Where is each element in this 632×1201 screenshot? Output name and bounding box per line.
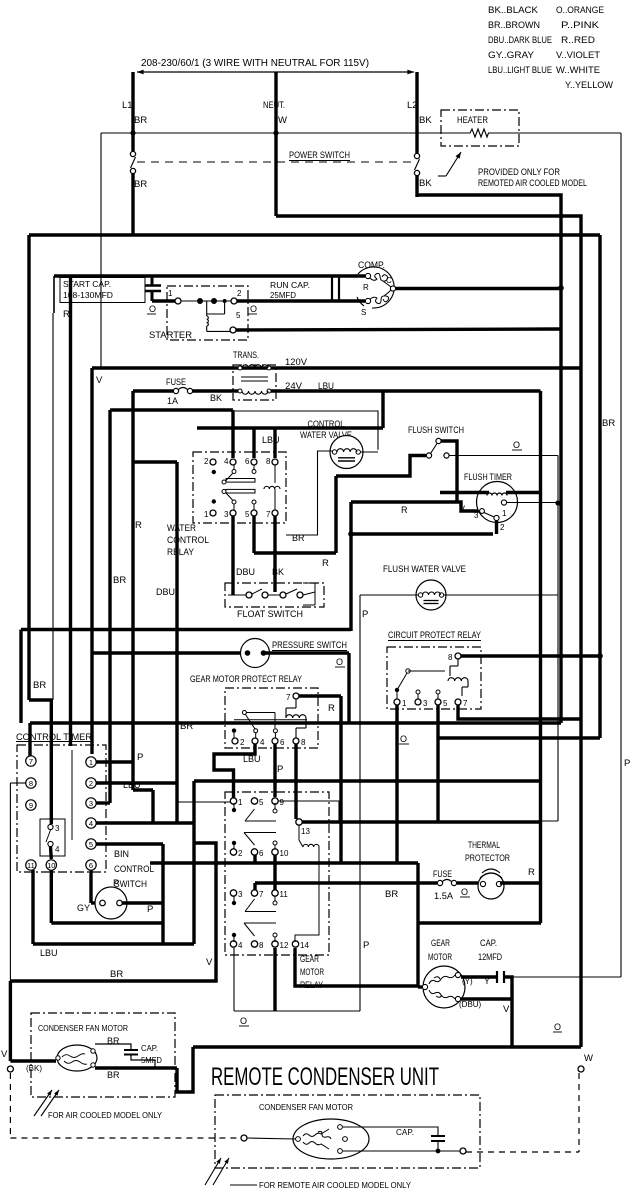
wire CPR7 to W rail <box>458 705 581 719</box>
wire V return staircase <box>177 1047 193 1092</box>
svg-text:V: V <box>96 375 103 386</box>
svg-text:MOTOR: MOTOR <box>428 952 452 962</box>
svg-text:PROVIDED ONLY FOR: PROVIDED ONLY FOR <box>478 167 560 177</box>
terminal starter 5 <box>230 327 236 333</box>
wire V bus y1047 <box>193 1045 581 1048</box>
svg-text:GEAR: GEAR <box>431 938 450 948</box>
wire cam to timer10 <box>49 847 53 859</box>
wire remote lower lead <box>343 1150 460 1152</box>
terminal timer 10 <box>46 860 56 870</box>
svg-text:LBU: LBU <box>40 948 58 958</box>
wire remote cap bottom lead <box>437 1141 439 1151</box>
junction x351 y534 <box>348 531 354 537</box>
svg-text:4: 4 <box>238 941 243 950</box>
wire y738 link <box>438 736 600 739</box>
circuit protect relay box <box>387 647 481 709</box>
wire motor to cap <box>461 975 497 978</box>
wire valve feed thin <box>235 411 378 450</box>
svg-text:FLUSH SWITCH: FLUSH SWITCH <box>408 425 464 436</box>
svg-text:SWITCH: SWITCH <box>114 879 147 889</box>
svg-text:W..WHITE: W..WHITE <box>556 65 600 76</box>
wire flush switch feed <box>336 456 426 477</box>
svg-text:3: 3 <box>474 511 479 520</box>
wire dashed W to remote <box>466 1151 579 1153</box>
power switch L1 pole <box>130 151 135 156</box>
wire thin drop x101 <box>100 133 102 368</box>
wire WCR5 down <box>252 516 255 553</box>
wire y534 flush timer 2 <box>351 532 493 535</box>
wire GMR7 stub <box>253 883 256 890</box>
GMR dots and stubs <box>232 808 236 812</box>
wire GMPR4 to GMR1 <box>214 744 255 798</box>
junction NEUT tap <box>273 130 278 135</box>
junction thin x558 y503 <box>555 500 560 505</box>
terminal WCR 6 <box>251 459 257 465</box>
contact dot WCR lower <box>212 499 216 503</box>
terminal GMR 14 <box>292 941 298 947</box>
start cap label box <box>60 278 145 303</box>
svg-text:RELAY: RELAY <box>300 980 323 990</box>
svg-text:4: 4 <box>224 457 229 466</box>
wire LBU y428 <box>197 426 383 429</box>
terminal timer 1 <box>86 757 96 767</box>
svg-text:NEUT.: NEUT. <box>263 100 285 111</box>
wire flush timer 1 out <box>507 502 558 504</box>
CPR switch arm <box>397 673 407 690</box>
svg-text:BR: BR <box>292 533 305 543</box>
terminal starter 1 <box>175 298 181 304</box>
terminal timer 4 <box>86 818 96 828</box>
wire GMPR8 to GMR13 <box>294 744 297 819</box>
svg-text:L2: L2 <box>407 100 418 111</box>
svg-text:GY: GY <box>77 903 90 913</box>
svg-text:O: O <box>250 304 257 314</box>
svg-text:1: 1 <box>168 289 173 298</box>
wire GMR13 to R rail <box>302 820 541 823</box>
terminal WCR 4 <box>230 459 236 465</box>
terminal WCR 8 <box>272 459 278 465</box>
svg-text:8: 8 <box>266 457 271 466</box>
svg-text:120V: 120V <box>285 357 307 367</box>
terminal W open <box>578 1066 584 1072</box>
svg-text:BR: BR <box>110 969 123 980</box>
terminal GMR 7 <box>251 890 257 896</box>
svg-text:BK..BLACK: BK..BLACK <box>488 5 539 16</box>
terminal CPR 7 <box>455 699 461 705</box>
wire riser x336 <box>334 476 337 553</box>
terminal WCR 7 <box>272 510 278 516</box>
svg-text:CAP.: CAP. <box>480 938 497 948</box>
svg-text:R: R <box>363 283 369 292</box>
wire y1011 thin <box>234 1010 360 1012</box>
transformer core <box>241 376 268 378</box>
wire fuse riser x133 down <box>131 391 134 790</box>
wire y553 <box>254 551 336 554</box>
wire starter bus y301 left <box>152 299 178 302</box>
wire y923 link <box>418 921 541 924</box>
svg-text:3: 3 <box>238 890 243 899</box>
svg-text:FLUSH WATER VALVE: FLUSH WATER VALVE <box>383 564 466 575</box>
svg-text:R: R <box>135 520 142 531</box>
flush timer motor <box>477 482 518 523</box>
svg-text:RELAY: RELAY <box>167 547 194 557</box>
svg-text:W: W <box>278 115 287 126</box>
svg-text:7: 7 <box>29 757 33 766</box>
flush timer contacts <box>480 509 485 514</box>
wire flush valve right <box>444 594 558 596</box>
wire LBU bus y790 short <box>133 788 153 791</box>
svg-text:5: 5 <box>259 798 264 807</box>
GMR switch arms <box>245 809 255 821</box>
svg-text:11: 11 <box>280 890 289 899</box>
svg-text:DBU..DARK BLUE: DBU..DARK BLUE <box>488 35 552 46</box>
wire WCR6 feed <box>252 428 255 458</box>
svg-text:O: O <box>149 304 156 314</box>
svg-text:O: O <box>513 440 520 450</box>
terminal timer 3 <box>86 798 96 808</box>
svg-text:FLUSH TIMER: FLUSH TIMER <box>464 472 512 483</box>
GMPR switch arm <box>242 711 246 715</box>
gear motor windings <box>429 975 455 984</box>
junction CPR8 BR rail <box>597 653 603 659</box>
wire timer1 link <box>96 760 133 763</box>
remote condenser unit box <box>215 1095 480 1168</box>
wire V to pressure switch <box>92 651 246 654</box>
terminal CPR 8 <box>455 653 461 659</box>
wire flush NC thin y455 <box>449 455 558 457</box>
svg-text:BR: BR <box>134 115 147 126</box>
wire riser x153 <box>151 790 154 823</box>
GMR coil <box>303 844 319 847</box>
svg-text:6: 6 <box>280 738 285 747</box>
wire y502 to flush timer 3 <box>351 502 479 511</box>
svg-text:BR: BR <box>33 680 46 691</box>
wire R rail x541 <box>539 391 542 923</box>
terminal timer 7 <box>26 756 36 766</box>
svg-text:MOTOR: MOTOR <box>300 967 324 977</box>
svg-text:BK: BK <box>272 567 284 577</box>
solenoid control water valve <box>330 436 363 469</box>
wire CPR1 down <box>395 705 398 863</box>
wire fuse line right BK <box>192 389 238 392</box>
svg-text:208-230/60/1 (3 WIRE WITH NEUT: 208-230/60/1 (3 WIRE WITH NEUTRAL FOR 11… <box>141 58 369 69</box>
wire CPR5 down <box>436 705 439 822</box>
svg-text:CAP.: CAP. <box>396 1127 414 1137</box>
wire WCR8 feed <box>273 428 276 458</box>
terminal comp R <box>365 273 370 278</box>
wire GY bus y923 <box>51 921 163 924</box>
wire L1 below switch <box>131 173 134 236</box>
svg-text:GEAR MOTOR PROTECT RELAY: GEAR MOTOR PROTECT RELAY <box>190 674 303 685</box>
svg-text:10: 10 <box>47 861 55 870</box>
svg-text:R: R <box>328 703 335 714</box>
solenoid flush water valve <box>416 580 446 610</box>
wire R stub drop x54 <box>53 276 55 313</box>
svg-text:6: 6 <box>245 457 250 466</box>
wire dashed V to remote <box>10 1137 244 1139</box>
wire valve left lead to WCR <box>286 451 333 535</box>
svg-text:8: 8 <box>301 738 306 747</box>
svg-text:O: O <box>554 1022 561 1032</box>
arrowhead left feed <box>137 70 144 75</box>
wire WCR3 to float <box>231 516 234 595</box>
wire CPR8 to BR rail <box>461 654 600 657</box>
wire BR left rail x29 <box>27 235 30 700</box>
wire BR fuse line <box>255 881 437 884</box>
svg-text:8: 8 <box>448 653 453 662</box>
arrowhead right feed <box>407 70 414 75</box>
svg-text:BR: BR <box>113 575 126 586</box>
svg-text:8: 8 <box>259 941 264 950</box>
svg-text:FOR REMOTE AIR COOLED MODEL ON: FOR REMOTE AIR COOLED MODEL ONLY <box>259 1180 411 1190</box>
transformer secondary coil <box>238 389 242 393</box>
wire heater left lead <box>419 132 466 134</box>
wire GMPR6 to GMR9 <box>273 744 276 797</box>
wire TP to R rail <box>500 881 541 884</box>
svg-text:DBU: DBU <box>156 587 175 597</box>
terminal WCR 5 <box>251 510 257 516</box>
svg-text:12: 12 <box>280 941 289 950</box>
svg-text:13: 13 <box>301 827 310 836</box>
wire bin left lead <box>91 901 100 904</box>
wire neutral-tap horizontal thin <box>101 132 421 134</box>
float switch right bracket <box>303 592 315 595</box>
wire thin x558 join <box>541 820 558 822</box>
wire motor DBU lead <box>461 997 512 1000</box>
svg-text:1: 1 <box>89 758 93 767</box>
wire GMPR7 drop x341 <box>339 696 342 863</box>
wire thin drop x10 <box>9 783 11 981</box>
svg-text:P: P <box>277 764 283 775</box>
wire R bus y492 left <box>440 491 489 494</box>
capacitor 5MFD fan <box>124 1049 138 1051</box>
wire cap to V bus <box>504 977 512 1047</box>
arrow heater note <box>446 152 461 176</box>
svg-text:BR..BROWN: BR..BROWN <box>488 20 540 31</box>
power switch L2 pole <box>414 153 419 158</box>
starter relay coil <box>206 301 208 316</box>
remote condenser fan motor <box>293 1119 369 1159</box>
svg-text:LBU: LBU <box>262 435 280 445</box>
svg-text:CONDENSER FAN MOTOR: CONDENSER FAN MOTOR <box>259 1102 353 1112</box>
terminal timer 5 <box>86 839 96 849</box>
svg-text:2: 2 <box>204 457 209 466</box>
wire R riser x71 <box>69 276 72 746</box>
svg-text:R: R <box>322 558 329 569</box>
svg-text:BR: BR <box>385 889 398 900</box>
wire fan cap bottom <box>131 1055 155 1068</box>
svg-text:9: 9 <box>29 801 33 810</box>
control timer box <box>17 745 106 872</box>
wire dashed W drop <box>578 1073 580 1152</box>
wire bus to timer7 <box>28 723 31 756</box>
wire thin R drop x53 <box>52 313 54 700</box>
wire LBU bus y944 <box>33 942 194 945</box>
wire P drop x360 <box>359 595 361 1011</box>
svg-text:V: V <box>459 504 465 514</box>
svg-text:BR: BR <box>134 179 147 190</box>
wire fuse to TP <box>457 881 478 884</box>
svg-text:BR: BR <box>107 1070 120 1080</box>
terminal timer 6 <box>86 860 96 870</box>
svg-text:FUSE: FUSE <box>166 377 186 387</box>
wire GMR12 down <box>273 948 276 1011</box>
terminal GMPR 4 <box>252 738 258 744</box>
wire L2 drop <box>415 72 418 153</box>
wire V to fan motor <box>10 1059 56 1062</box>
svg-text:(BK): (BK) <box>26 1064 42 1073</box>
terminal WCR 3 <box>230 510 236 516</box>
svg-text:REMOTED AIR COOLED MODEL: REMOTED AIR COOLED MODEL <box>478 178 587 188</box>
svg-text:1A: 1A <box>167 396 178 406</box>
svg-text:P: P <box>363 940 369 951</box>
svg-text:O: O <box>240 1016 247 1026</box>
svg-text:14: 14 <box>300 941 309 950</box>
svg-text:5: 5 <box>89 840 93 849</box>
wire remote motor left lead <box>247 1138 296 1139</box>
svg-text:5MFD: 5MFD <box>141 1055 162 1065</box>
wire timer11 down <box>31 870 34 944</box>
svg-text:O: O <box>461 887 468 897</box>
pressure switch <box>241 639 270 668</box>
arrow air cooled note <box>34 1090 52 1116</box>
svg-text:11: 11 <box>27 861 35 870</box>
wire BR right rail x600 <box>598 235 601 738</box>
svg-text:5: 5 <box>236 311 241 320</box>
water control relay box <box>193 452 286 523</box>
svg-text:Y..YELLOW: Y..YELLOW <box>565 80 613 91</box>
wire staircase x216 to BR bus <box>194 843 216 981</box>
svg-text:6: 6 <box>259 849 264 858</box>
capacitor 12MFD <box>496 971 498 983</box>
gear motor protect relay box <box>225 688 318 748</box>
heater box <box>441 110 519 146</box>
terminal timer 9 <box>26 800 36 810</box>
wire V drop x92 <box>90 368 93 754</box>
junction starter c <box>223 299 227 303</box>
terminal CPR 1 <box>394 699 400 705</box>
terminal starter 2 <box>231 298 237 304</box>
wire GMR14 to gear motor <box>295 948 418 986</box>
svg-text:POWER SWITCH: POWER SWITCH <box>289 150 350 161</box>
terminal GMPR 6 <box>272 738 278 744</box>
transformer primary coil <box>238 366 242 370</box>
svg-text:8: 8 <box>29 779 33 788</box>
CPR coil <box>448 678 468 681</box>
terminal GMR 3 <box>230 890 236 896</box>
timer 3 stub <box>96 801 110 804</box>
terminal GMR 5 <box>251 798 257 804</box>
wire 120V line y368 <box>92 366 582 369</box>
wire y410 link <box>110 408 233 411</box>
svg-text:S: S <box>361 308 366 317</box>
svg-text:2: 2 <box>240 738 245 747</box>
wire left drop x21 <box>19 630 22 724</box>
svg-text:O: O <box>336 657 343 667</box>
wire flush switch out <box>441 441 457 502</box>
terminal remote left <box>241 1135 247 1141</box>
svg-text:STARTER: STARTER <box>149 330 192 341</box>
svg-text:9: 9 <box>280 798 285 807</box>
wire remote cap top lead <box>343 1127 438 1136</box>
svg-text:DBU: DBU <box>236 567 255 577</box>
svg-text:1.5A: 1.5A <box>434 891 453 901</box>
contact dot WCR upper <box>212 470 216 474</box>
wire timer5 row y844 <box>96 842 163 845</box>
wire flush timer 2 down <box>495 521 498 534</box>
wire starter5 to BK rail y329 <box>236 329 561 330</box>
svg-text:10: 10 <box>280 849 289 858</box>
svg-text:7: 7 <box>266 510 271 519</box>
timer cam switch box <box>40 819 65 856</box>
svg-text:7: 7 <box>259 890 264 899</box>
wire W neutral rail right <box>276 216 581 1047</box>
wire link y462 <box>133 460 177 463</box>
wire y629 bus <box>21 628 351 631</box>
terminal timer 8 <box>26 778 36 788</box>
svg-text:HEATER: HEATER <box>457 115 488 126</box>
gear motor relay box <box>225 792 329 955</box>
thermal protector <box>478 873 504 899</box>
svg-text:P: P <box>137 752 143 763</box>
wire thin heater return y977 <box>512 976 621 978</box>
starter relay box <box>167 286 248 340</box>
svg-text:1: 1 <box>238 798 243 807</box>
wire fan to cap top <box>95 1044 131 1050</box>
svg-text:2: 2 <box>237 289 242 298</box>
svg-text:PRESSURE SWITCH: PRESSURE SWITCH <box>272 640 347 650</box>
wire V drop bottom <box>9 981 12 1061</box>
svg-text:1: 1 <box>402 699 407 708</box>
svg-text:4: 4 <box>89 819 93 828</box>
wire GMPR7 out <box>299 694 341 697</box>
wire timer8 thin out <box>10 782 26 784</box>
svg-text:BK: BK <box>419 115 432 126</box>
svg-text:CONDENSER FAN MOTOR: CONDENSER FAN MOTOR <box>38 1023 128 1033</box>
svg-text:LBU..LIGHT BLUE: LBU..LIGHT BLUE <box>488 65 552 76</box>
float switch contacts <box>228 594 246 596</box>
wire timer6 to bin switch <box>89 870 92 903</box>
junction starter b <box>211 298 217 304</box>
svg-text:4: 4 <box>55 845 60 854</box>
wire supply feed line <box>137 71 414 73</box>
wire BR bus y981 <box>10 979 217 982</box>
terminal GMPR 8 <box>293 738 299 744</box>
contact dot GMPR 2 <box>232 728 236 732</box>
terminal WCR 2 <box>210 459 216 465</box>
svg-text:FUSE: FUSE <box>433 869 452 879</box>
wire starter internal y301 <box>181 300 231 302</box>
wire LBU riser x383 <box>381 391 384 428</box>
wire timer10 down <box>50 870 53 923</box>
terminal timer 2 <box>86 778 96 788</box>
contact dot CPR 1 <box>395 688 399 692</box>
svg-text:L1: L1 <box>122 100 133 111</box>
svg-text:CONTROL: CONTROL <box>114 864 154 874</box>
wire dashed V drop <box>9 1073 11 1138</box>
wire riser x110 to timer3 <box>108 410 111 803</box>
wire bin right lead <box>122 901 163 904</box>
svg-text:TRANS.: TRANS. <box>233 350 259 360</box>
condenser fan motor box <box>31 1013 175 1097</box>
svg-text:P: P <box>624 758 630 769</box>
svg-text:V..VIOLET: V..VIOLET <box>556 50 600 61</box>
fuse 1.5A <box>437 880 442 885</box>
svg-text:1: 1 <box>502 509 507 518</box>
svg-text:7: 7 <box>463 699 468 708</box>
wire GMR coil to 14 <box>295 847 319 942</box>
wire gear motor left lead <box>418 985 422 988</box>
